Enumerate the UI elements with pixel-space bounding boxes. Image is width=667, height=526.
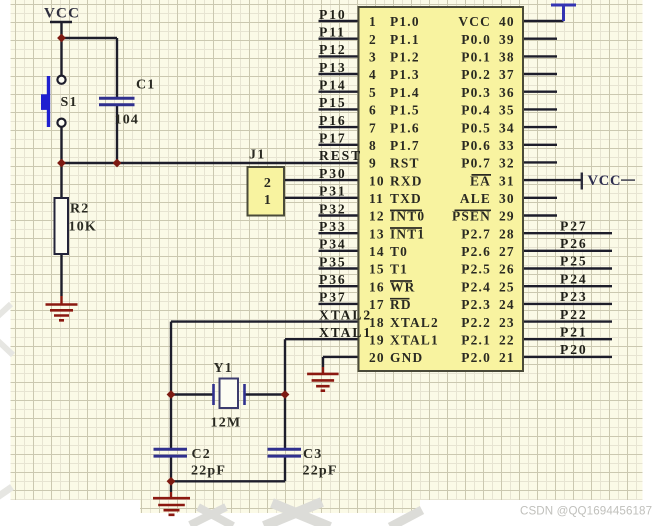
- svg-text:P17: P17: [319, 131, 347, 146]
- svg-text:35: 35: [499, 103, 515, 118]
- svg-text:13: 13: [369, 226, 385, 241]
- svg-text:25: 25: [499, 279, 515, 294]
- svg-text:P1.0: P1.0: [390, 14, 420, 29]
- svg-text:1: 1: [369, 14, 377, 29]
- svg-text:P1.7: P1.7: [390, 138, 420, 153]
- svg-text:8: 8: [369, 138, 377, 153]
- svg-text:38: 38: [499, 50, 515, 65]
- svg-text:P22: P22: [560, 307, 588, 322]
- svg-text:P36: P36: [319, 272, 347, 287]
- svg-text:22pF: 22pF: [191, 464, 226, 479]
- svg-text:12M: 12M: [211, 416, 242, 431]
- svg-text:30: 30: [499, 191, 515, 206]
- svg-text:GND: GND: [390, 350, 423, 365]
- svg-text:31: 31: [499, 173, 515, 188]
- svg-text:VCC: VCC: [588, 173, 622, 189]
- svg-text:29: 29: [499, 209, 515, 224]
- svg-text:Y1: Y1: [214, 361, 234, 376]
- svg-text:XTAL2: XTAL2: [319, 307, 372, 322]
- svg-text:3: 3: [369, 50, 377, 65]
- svg-text:P0.4: P0.4: [461, 103, 491, 118]
- svg-text:P32: P32: [319, 201, 347, 216]
- svg-text:37: 37: [499, 67, 515, 82]
- svg-text:R2: R2: [70, 202, 90, 217]
- svg-text:22pF: 22pF: [303, 464, 338, 479]
- svg-text:T1: T1: [390, 262, 408, 277]
- svg-text:RST: RST: [390, 156, 420, 171]
- svg-text:P13: P13: [319, 60, 347, 75]
- svg-text:9: 9: [369, 156, 377, 171]
- svg-text:4: 4: [369, 67, 377, 82]
- svg-text:ALE: ALE: [460, 191, 491, 206]
- svg-text:P2.2: P2.2: [461, 315, 491, 330]
- svg-text:P1.5: P1.5: [390, 103, 420, 118]
- svg-text:5: 5: [369, 85, 377, 100]
- svg-text:20: 20: [369, 350, 385, 365]
- svg-text:P1.4: P1.4: [390, 85, 420, 100]
- svg-text:39: 39: [499, 32, 515, 47]
- svg-text:11: 11: [369, 191, 384, 206]
- svg-text:TXD: TXD: [390, 191, 422, 206]
- svg-text:27: 27: [499, 244, 515, 259]
- svg-text:CSDN @QQ1694456187: CSDN @QQ1694456187: [520, 505, 652, 518]
- svg-text:34: 34: [499, 120, 515, 135]
- svg-text:XTAL2: XTAL2: [390, 315, 439, 330]
- svg-text:C1: C1: [136, 78, 156, 93]
- svg-text:P1.6: P1.6: [390, 120, 420, 135]
- svg-text:P11: P11: [319, 25, 346, 40]
- svg-text:P34: P34: [319, 237, 347, 252]
- svg-text:12: 12: [369, 209, 385, 224]
- svg-text:RXD: RXD: [390, 173, 423, 188]
- svg-text:P2.0: P2.0: [461, 350, 491, 365]
- svg-text:P15: P15: [319, 95, 347, 110]
- svg-text:P0.3: P0.3: [461, 85, 491, 100]
- svg-text:7: 7: [369, 120, 377, 135]
- svg-text:104: 104: [115, 113, 140, 128]
- svg-text:P37: P37: [319, 290, 347, 305]
- svg-text:P2.5: P2.5: [461, 262, 491, 277]
- svg-text:P33: P33: [319, 219, 347, 234]
- svg-text:XTAL1: XTAL1: [390, 332, 439, 347]
- svg-text:P2.1: P2.1: [461, 332, 491, 347]
- svg-text:36: 36: [499, 85, 515, 100]
- svg-text:P30: P30: [319, 166, 347, 181]
- svg-text:P12: P12: [319, 42, 347, 57]
- svg-text:6: 6: [369, 103, 377, 118]
- svg-text:REST: REST: [319, 148, 362, 163]
- svg-text:XTAL1: XTAL1: [319, 325, 372, 340]
- svg-text:C3: C3: [303, 447, 323, 462]
- svg-text:28: 28: [499, 226, 515, 241]
- svg-text:2: 2: [264, 176, 272, 191]
- svg-text:23: 23: [499, 315, 515, 330]
- svg-text:P2.7: P2.7: [461, 226, 491, 241]
- svg-text:P1.1: P1.1: [390, 32, 420, 47]
- svg-text:24: 24: [499, 297, 515, 312]
- svg-text:P10: P10: [319, 7, 347, 22]
- svg-text:33: 33: [499, 138, 515, 153]
- svg-text:22: 22: [499, 332, 515, 347]
- svg-text:P27: P27: [560, 218, 588, 233]
- svg-text:32: 32: [499, 156, 515, 171]
- svg-text:S1: S1: [61, 95, 78, 110]
- svg-text:P1.3: P1.3: [390, 67, 420, 82]
- svg-text:26: 26: [499, 262, 515, 277]
- svg-text:VCC: VCC: [44, 6, 80, 22]
- svg-text:P0.1: P0.1: [461, 50, 491, 65]
- svg-text:P2.4: P2.4: [461, 279, 491, 294]
- svg-text:15: 15: [369, 262, 385, 277]
- svg-text:VCC: VCC: [458, 14, 491, 29]
- svg-text:10: 10: [369, 173, 385, 188]
- svg-text:40: 40: [499, 14, 515, 29]
- svg-text:C2: C2: [192, 447, 212, 462]
- svg-text:P2.3: P2.3: [461, 297, 491, 312]
- svg-text:P23: P23: [560, 289, 588, 304]
- svg-text:2: 2: [369, 32, 377, 47]
- svg-text:P16: P16: [319, 113, 347, 128]
- svg-text:P31: P31: [319, 184, 347, 199]
- svg-text:21: 21: [499, 350, 515, 365]
- svg-text:P0.6: P0.6: [461, 138, 491, 153]
- svg-text:P0.5: P0.5: [461, 120, 491, 135]
- svg-text:P20: P20: [560, 342, 588, 357]
- svg-text:P1.2: P1.2: [390, 50, 420, 65]
- svg-text:1: 1: [264, 193, 272, 208]
- svg-text:14: 14: [369, 244, 385, 259]
- svg-text:16: 16: [369, 279, 385, 294]
- svg-text:P26: P26: [560, 236, 588, 251]
- svg-text:P25: P25: [560, 254, 588, 269]
- svg-text:P0.0: P0.0: [461, 32, 491, 47]
- svg-text:J1: J1: [249, 148, 265, 163]
- svg-text:P21: P21: [560, 324, 588, 339]
- svg-text:P24: P24: [560, 271, 588, 286]
- svg-text:P2.6: P2.6: [461, 244, 491, 259]
- svg-text:10K: 10K: [69, 220, 98, 235]
- svg-text:T0: T0: [390, 244, 408, 259]
- svg-text:P14: P14: [319, 78, 347, 93]
- svg-text:P0.7: P0.7: [461, 156, 491, 171]
- svg-text:P35: P35: [319, 254, 347, 269]
- svg-text:P0.2: P0.2: [461, 67, 491, 82]
